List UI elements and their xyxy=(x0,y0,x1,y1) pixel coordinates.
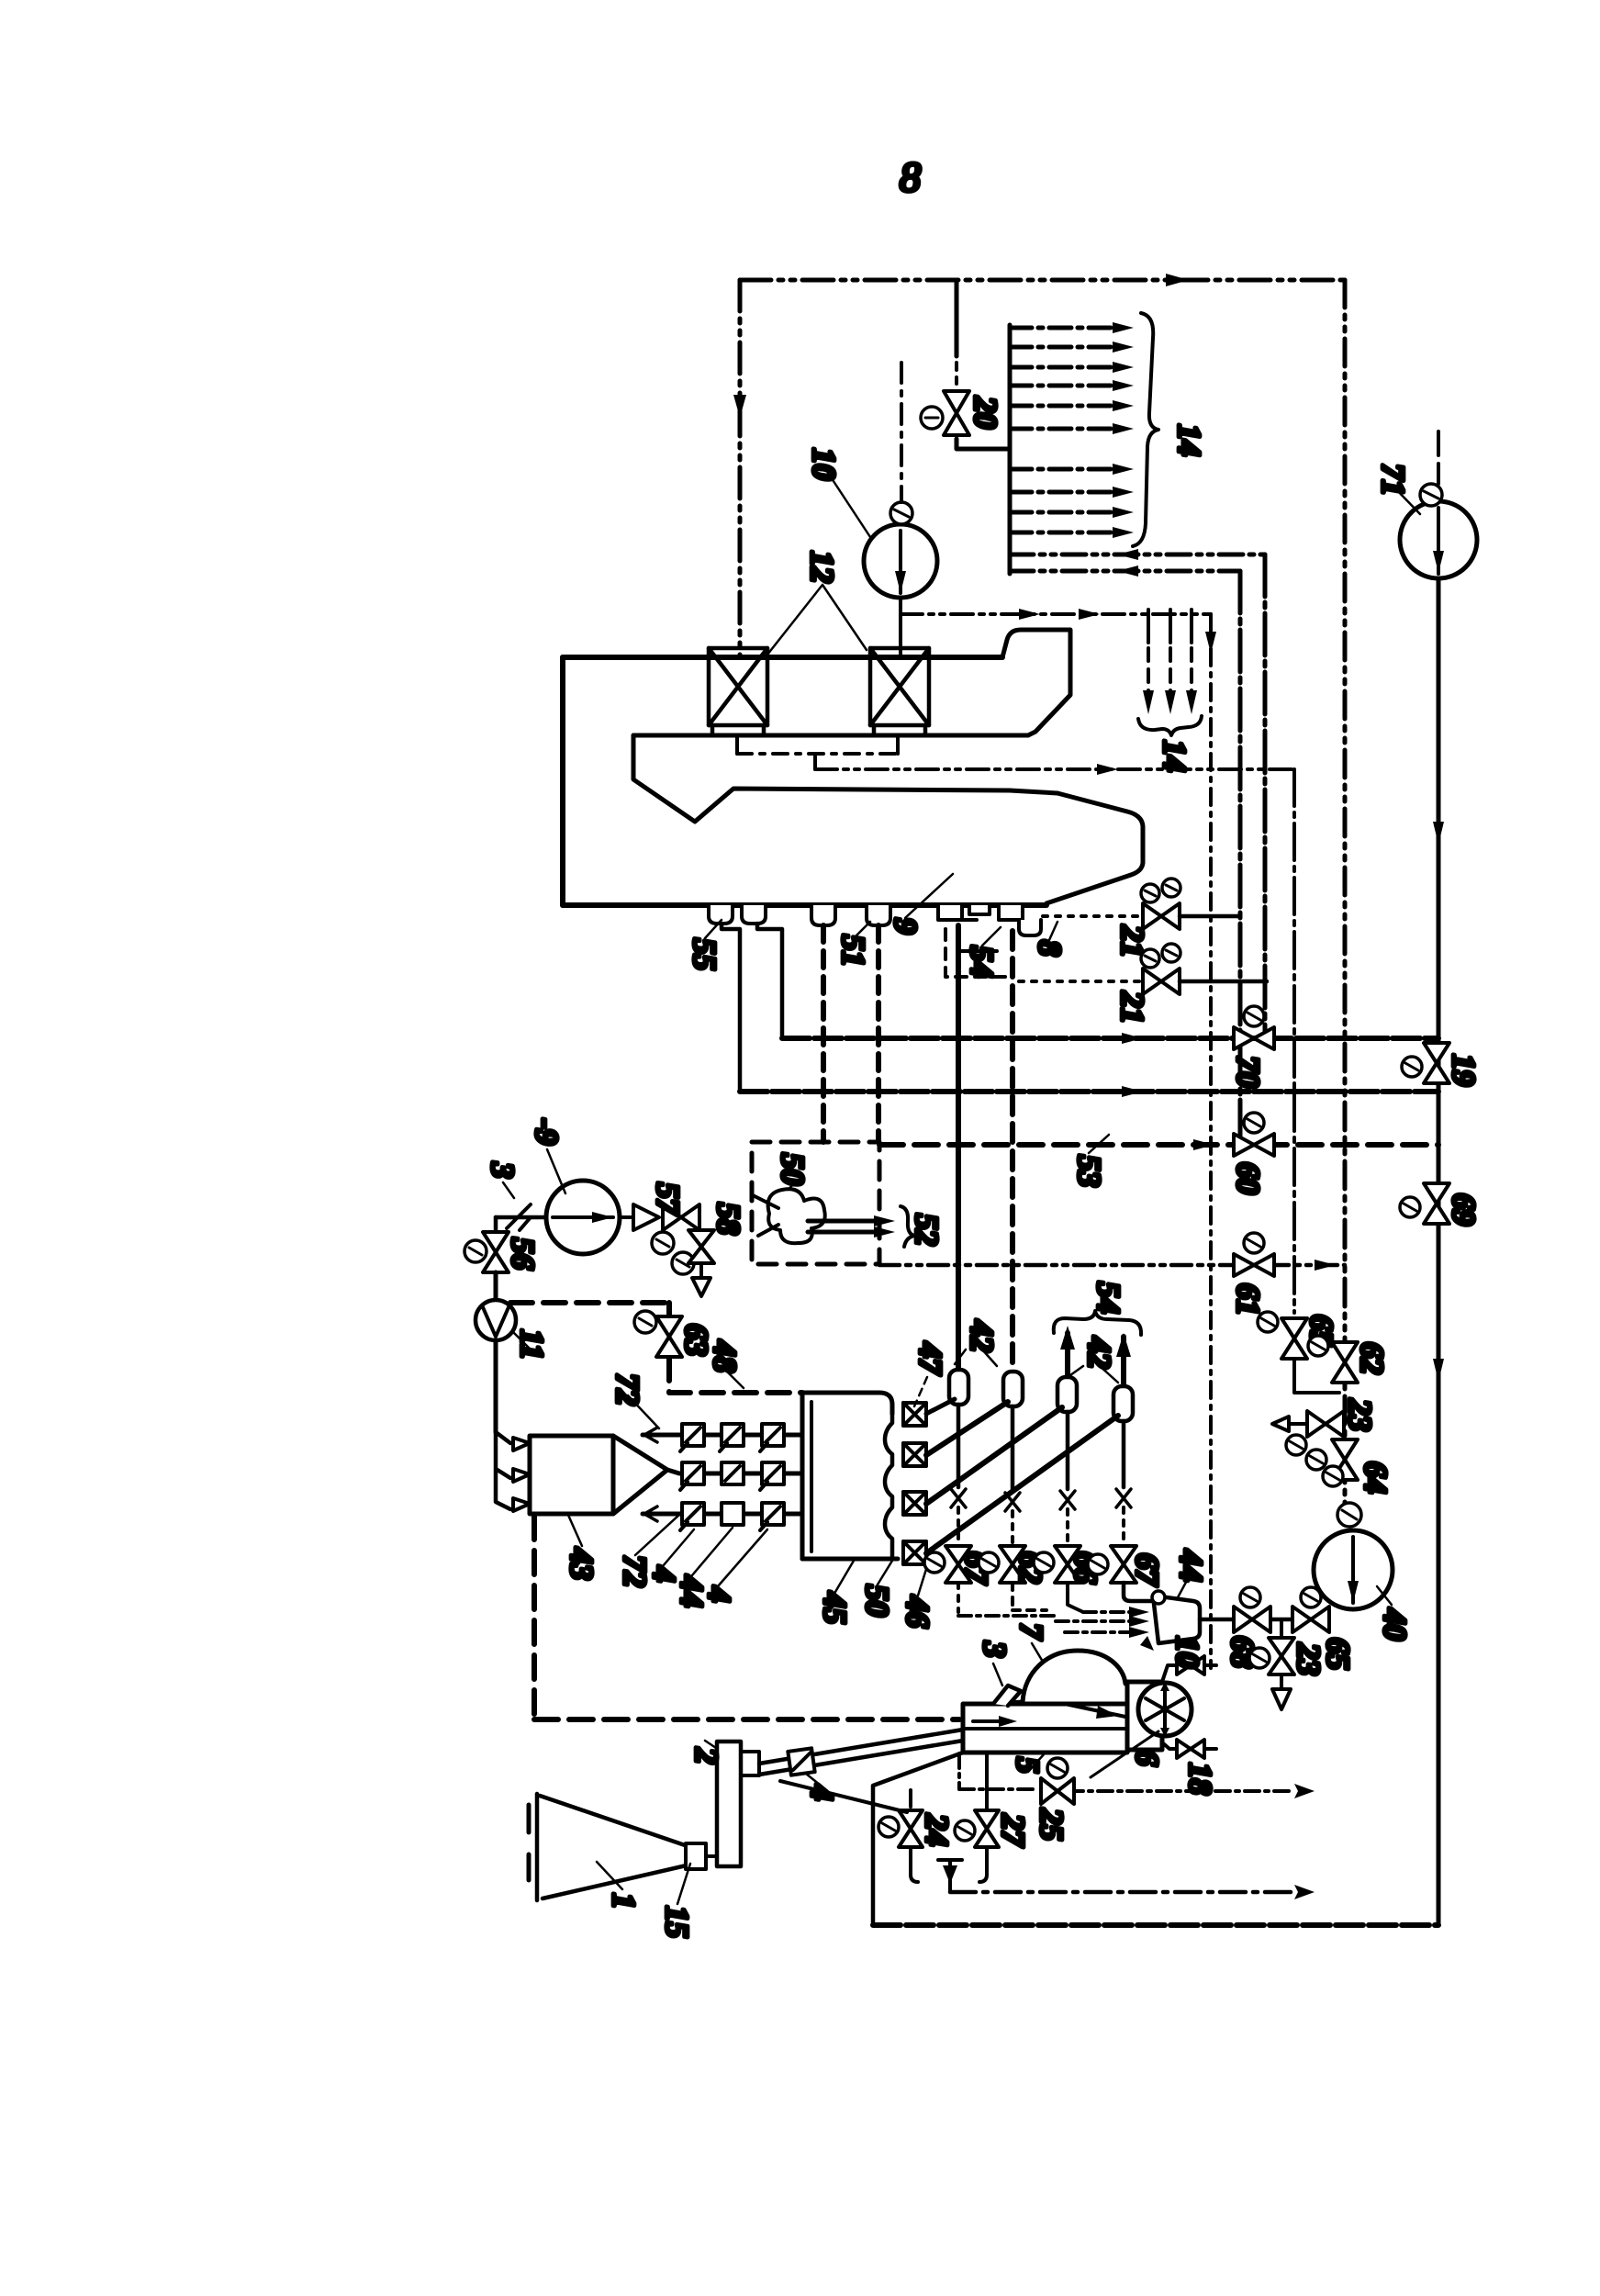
pipe: valve 21b to riser x1380 xyxy=(1180,980,1267,984)
valve 66b with gauge xyxy=(1055,1546,1080,1583)
vent arrow below 58 xyxy=(699,1263,703,1276)
mill fan 6 housing xyxy=(1127,1682,1162,1750)
gauge above pump 40 xyxy=(1337,1503,1361,1527)
svg-text:14: 14 xyxy=(1171,424,1207,456)
drain header y2062 with tee xyxy=(938,1860,962,1891)
valve 66 with gauge xyxy=(1000,1546,1025,1583)
fuel pipe row 1 (y1563) xyxy=(643,1433,802,1438)
svg-text:20: 20 xyxy=(968,396,1003,429)
valve 24 with gauge xyxy=(899,1810,923,1847)
cyclone separator 43 xyxy=(530,1436,613,1514)
pipe: radiator bottom line to riser (y604) xyxy=(1010,553,1265,557)
svg-text:9: 9 xyxy=(888,918,923,935)
pipe: top header dash-dot-dot line xyxy=(740,278,1345,283)
valve 63 on line 48 with gauge xyxy=(656,1316,682,1357)
enclosure bottom edge (bold dotted) xyxy=(873,1922,1438,1928)
pipe above 71 xyxy=(1437,431,1440,484)
air duct bottom line xyxy=(633,734,1028,738)
svg-text:4: 4 xyxy=(701,1585,737,1603)
valve 62 on x1465 with gauge xyxy=(1332,1342,1358,1383)
arrow on top header xyxy=(1166,274,1189,286)
furnace mouth polygon xyxy=(633,735,1057,822)
svg-text:55: 55 xyxy=(687,938,722,970)
svg-text:42: 42 xyxy=(964,1319,1000,1352)
pipe: right main vertical x1567 xyxy=(1437,578,1441,1925)
svg-text:21: 21 xyxy=(1114,991,1150,1024)
valve 60 with gauge xyxy=(1234,1134,1274,1156)
pump 10 xyxy=(864,524,937,598)
pipe: collector 44 outlet to pump 40 xyxy=(1200,1618,1318,1622)
pipe: tee from header down to valve 20 xyxy=(955,280,959,356)
pipe: fan 11 down to cyclone 43 xyxy=(494,1340,498,1432)
pipe: valve 65 down and over to x1465 xyxy=(1294,1359,1339,1393)
pipe: line y1247 from box 50 to right (bold dashed) xyxy=(879,1142,1438,1148)
pump 40 xyxy=(1314,1530,1393,1609)
seal air enclosure: left edge and chute xyxy=(873,1753,963,1925)
gauge above pump 10 xyxy=(890,502,912,524)
valve 65 on riser x1410 with gauge xyxy=(1281,1318,1307,1359)
raw coal feeder 2 xyxy=(717,1742,741,1866)
pipe: drop x852 to manifold y1131 xyxy=(757,924,782,1038)
pipe: burner 54 drop x1044 (bold) to injector xyxy=(956,925,961,1372)
svg-text:19: 19 xyxy=(1446,1054,1482,1086)
boiler shell left edge xyxy=(560,657,565,905)
svg-text:23: 23 xyxy=(1342,1398,1378,1431)
pipe: radiator bottom line to riser (y622) xyxy=(1010,569,1240,574)
radiator 14: left header xyxy=(1008,325,1013,574)
svg-text:10: 10 xyxy=(806,448,842,480)
svg-text:50: 50 xyxy=(775,1153,811,1185)
valve 20 xyxy=(944,391,969,435)
svg-text:24: 24 xyxy=(919,1813,955,1846)
gauge above 71 xyxy=(1420,484,1442,506)
circle 71 (meter) xyxy=(1400,501,1477,578)
arrow on left vertical xyxy=(733,395,746,418)
valve 23b branch with gauge and vent xyxy=(1280,1619,1283,1636)
ejector fan 52 inside box 50 xyxy=(768,1189,825,1243)
fuel pipe row 3 (y1649) xyxy=(643,1512,802,1517)
pipe: burner tap y1069 (dotted) to valve 21b xyxy=(1019,980,1141,983)
svg-text:2: 2 xyxy=(688,1747,724,1764)
valve 27 with gauge xyxy=(975,1810,999,1847)
radiator 14 brace xyxy=(1133,313,1158,546)
furnace nose xyxy=(1046,793,1143,903)
gauges and valve 58 xyxy=(652,1232,674,1254)
svg-text:12: 12 xyxy=(804,551,840,583)
valve 23a (blowdown) on branch with vent arrow xyxy=(1289,1422,1345,1426)
svg-text:11: 11 xyxy=(514,1329,550,1360)
valve 61 with gauge xyxy=(1234,1254,1274,1276)
pipe: riser x1410 down to valve 65 xyxy=(1292,769,1296,1313)
svg-text:57: 57 xyxy=(650,1182,686,1216)
svg-text:50: 50 xyxy=(859,1585,895,1617)
svg-text:46: 46 xyxy=(900,1595,935,1629)
boiler shell top edge xyxy=(563,655,1002,660)
valve 10m: mill top vent to riser xyxy=(1162,1665,1175,1682)
svg-text:51: 51 xyxy=(835,935,871,967)
mill 7 body xyxy=(963,1704,1127,1753)
pipe: riser x1351 down xyxy=(1238,571,1243,1145)
boiler rear-pass dome xyxy=(1002,630,1070,735)
svg-text:70: 70 xyxy=(1230,1056,1266,1088)
valve 18: mill fan outlet to riser xyxy=(1162,1742,1175,1749)
brace 54 xyxy=(1054,1311,1141,1335)
mill internal arrows xyxy=(973,1719,1006,1723)
pipe: riser x1378 down xyxy=(1263,554,1268,1038)
flue tap bundle 14: three drop lines with arrows xyxy=(1148,610,1192,707)
tap line to valve 24 xyxy=(780,1781,907,1812)
svg-text:25: 25 xyxy=(1034,1808,1069,1841)
valve 69 on right main with gauge xyxy=(1424,1183,1449,1224)
manifold line y1131 (bold) xyxy=(782,1036,1438,1041)
pipe: valve 67b to collector 44 xyxy=(1124,1583,1153,1601)
pipe: injector 2 drop xyxy=(1011,1406,1015,1491)
nozzle mixers (crossed boxes) xyxy=(903,1403,926,1564)
svg-text:8: 8 xyxy=(1032,940,1068,957)
pipe 48: hot air dashed line from valve 56 down and to manifold 45 xyxy=(494,1272,498,1303)
inlet damper 3 on mill xyxy=(993,1686,1021,1706)
pipe: right outer vertical (dash-dot-dot) down to pump 40 xyxy=(1343,280,1348,1513)
valve 67a with gauge xyxy=(945,1546,971,1583)
svg-text:67: 67 xyxy=(1129,1553,1165,1587)
svg-text:69: 69 xyxy=(1446,1193,1482,1226)
seal line y1949 with valve 25 xyxy=(959,1753,1037,1789)
mill fan 6 wheel xyxy=(1138,1683,1192,1736)
burner distributor box 45 xyxy=(800,1393,805,1559)
svg-text:58: 58 xyxy=(710,1203,746,1235)
fuel pipe row 2 (y1605) xyxy=(667,1470,802,1473)
conveyor belt to mill xyxy=(759,1730,963,1775)
svg-text:40: 40 xyxy=(1377,1607,1413,1641)
cyclone inlet fins xyxy=(513,1438,530,1511)
damper 3 on suction line xyxy=(496,1215,546,1220)
svg-text:54: 54 xyxy=(964,946,1000,978)
svg-text:62: 62 xyxy=(1354,1342,1390,1374)
pipe: burner 55 drop to manifold y1189 xyxy=(722,924,740,1092)
svg-text:71: 71 xyxy=(1375,464,1411,496)
svg-text:44: 44 xyxy=(1173,1549,1209,1582)
valve 68 with gauge xyxy=(1234,1607,1270,1632)
svg-text:43: 43 xyxy=(564,1547,599,1580)
svg-text:64: 64 xyxy=(1358,1462,1393,1494)
valve 65b with gauge xyxy=(1292,1607,1329,1632)
svg-text:54: 54 xyxy=(1091,1282,1126,1314)
recycle arrows into collector 44 xyxy=(1056,1612,1138,1632)
svg-text:7: 7 xyxy=(1013,1623,1049,1641)
pipe: burner 51 drop (dashed) into box 50 xyxy=(821,925,826,1142)
valve 67b with gauge xyxy=(1111,1546,1136,1583)
pipe above pump 10 xyxy=(900,363,903,502)
svg-text:47: 47 xyxy=(912,1341,948,1376)
duct lip detail xyxy=(735,737,739,754)
burner group bracket 9 (dashed) xyxy=(945,929,1008,977)
pipe: valve 20 to radiator inlet xyxy=(957,439,1010,449)
valve 21b xyxy=(1143,969,1180,994)
valve 64 on x1465 with gauge xyxy=(1332,1439,1358,1480)
feeder valves (slashed boxes) row 1 xyxy=(680,1424,784,1451)
svg-text:-9: -9 xyxy=(529,1118,565,1145)
svg-text:27: 27 xyxy=(995,1813,1031,1848)
pipe: burner tap y998 (dotted) to valve 21a xyxy=(1043,914,1141,918)
svg-text:8: 8 xyxy=(900,153,921,200)
valve 19 on right main (vertical) with gauge xyxy=(1424,1043,1449,1083)
pipe: burner 8 drop x1103 (dashed bold) to injector xyxy=(1010,931,1015,1372)
pipe: burner drop x957 (dashed) into box 50 xyxy=(876,925,881,1142)
pipe: line y1378 from box 50 right (dash-dot) xyxy=(879,1263,1345,1268)
steam injectors 42 (cylinders) xyxy=(949,1370,1133,1421)
svg-text:1: 1 xyxy=(606,1893,642,1910)
svg-text:48: 48 xyxy=(707,1339,743,1372)
air heater box 12b xyxy=(870,648,929,735)
pipe: pump 10 down to boiler xyxy=(899,598,902,655)
radiator 14: fin lines with arrows xyxy=(1010,328,1113,532)
pipe: left outer vertical (dash-dot-dot) down to boiler top xyxy=(738,280,743,657)
boiler shell bottom edge xyxy=(563,902,1046,908)
fan circle 9 xyxy=(546,1181,620,1254)
pipe: economizer line y669 to riser corner xyxy=(901,612,1211,616)
valve 70 with gauge xyxy=(1234,1027,1274,1049)
underbrace for flue taps 14 xyxy=(1138,716,1202,735)
gauge at valve 20 xyxy=(921,407,943,429)
svg-text:14: 14 xyxy=(1157,740,1192,772)
svg-text:72: 72 xyxy=(610,1373,645,1406)
svg-text:6: 6 xyxy=(1129,1750,1165,1766)
manifold line y1189 (bold) xyxy=(740,1089,1438,1094)
mixing jets: diagonals from nozzles to injectors xyxy=(926,1399,955,1414)
svg-text:53: 53 xyxy=(1071,1155,1107,1187)
burner stubs on boiler bottom xyxy=(709,905,1041,935)
pipe: flue line y838 to right riser xyxy=(815,767,1294,771)
svg-text:56: 56 xyxy=(505,1238,541,1271)
svg-text:3: 3 xyxy=(485,1161,520,1179)
raw coal bunker 1 xyxy=(537,1794,690,1900)
valve 57 xyxy=(663,1204,699,1230)
pipe: injector 3 drop xyxy=(1066,1412,1070,1489)
valve 56 with gauge xyxy=(494,1217,498,1230)
fan 11 on vertical to cyclone xyxy=(494,1272,498,1300)
feeder valves row 2 xyxy=(680,1462,784,1490)
hot air duct 11 to mill (bold dashed) xyxy=(534,1516,959,1719)
feeder valves row 3 xyxy=(680,1503,784,1530)
belt sampling box 4 xyxy=(788,1748,814,1775)
svg-text:42: 42 xyxy=(1081,1336,1117,1369)
svg-text:60: 60 xyxy=(1230,1162,1266,1194)
cone vent 57 on fan 9 discharge xyxy=(621,1204,659,1230)
steam supply arrows 54 xyxy=(1065,1333,1070,1375)
pipe: collector 44 bottom dash-dot xyxy=(958,1614,1056,1618)
box 50 (dashed enclosure) xyxy=(752,1142,879,1264)
air heater box 12a xyxy=(709,648,767,735)
svg-text:3: 3 xyxy=(977,1641,1013,1658)
drop pipe x1075 from mill xyxy=(985,1753,989,1814)
valve 21a xyxy=(1143,903,1180,929)
svg-text:45: 45 xyxy=(817,1591,853,1624)
svg-text:61: 61 xyxy=(1230,1283,1266,1316)
collector funnel 44 xyxy=(1153,1596,1200,1643)
pipe: riser x1319 down (dash-dot) xyxy=(1209,614,1213,1668)
svg-text:10: 10 xyxy=(1169,1636,1205,1668)
box 45 right scalloped edge with nozzle squares xyxy=(885,1414,892,1559)
mill dome 7 xyxy=(1023,1651,1125,1702)
pipe: injector 4 drop xyxy=(1122,1421,1126,1487)
pipe: valve 21a to riser x1351 xyxy=(1180,914,1240,919)
pipe: injector 1 drop xyxy=(957,1405,961,1487)
svg-text:52: 52 xyxy=(909,1214,945,1246)
ejector jets 52 xyxy=(808,1221,883,1232)
svg-text:23: 23 xyxy=(1291,1642,1326,1675)
svg-text:15: 15 xyxy=(659,1906,695,1938)
